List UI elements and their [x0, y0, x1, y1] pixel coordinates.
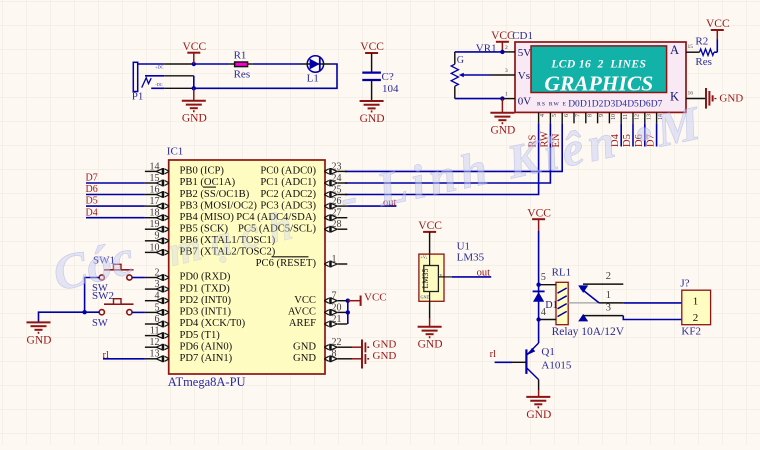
- wire EN : LCD pin6 to IC1 pin23: [345, 123, 562, 171]
- svg-text:Relay 10A/12V: Relay 10A/12V: [552, 326, 625, 338]
- svg-text:GRAPHICS: GRAPHICS: [544, 72, 653, 96]
- wire/net D7 from LCD pin 14: [656, 123, 658, 146]
- svg-text:RL1: RL1: [552, 267, 572, 279]
- IC1 pin 17: [145, 196, 169, 210]
- svg-text:VCC: VCC: [360, 41, 384, 53]
- node: relay pin5 junction: [536, 283, 540, 287]
- power ground GND (Q1): [526, 396, 550, 398]
- svg-text:GND: GND: [293, 342, 316, 353]
- svg-text:12: 12: [150, 337, 160, 348]
- power VCC (R2): [711, 29, 724, 31]
- svg-text:15: 15: [150, 173, 160, 184]
- wire/net D4 from LCD pin 11: [620, 123, 622, 146]
- svg-text:15: 15: [688, 44, 694, 50]
- svg-text:D4: D4: [86, 207, 98, 218]
- svg-text:rl: rl: [490, 349, 496, 360]
- svg-text:13: 13: [150, 349, 160, 360]
- sensor U1 LM35: [419, 241, 485, 302]
- svg-text:PC0 (ADC0): PC0 (ADC0): [260, 166, 316, 177]
- svg-text:PB3 (MOSI/OC2): PB3 (MOSI/OC2): [180, 200, 258, 211]
- svg-text:2: 2: [505, 45, 508, 51]
- power VCC (relay): [532, 218, 545, 220]
- svg-text:VCC: VCC: [294, 295, 316, 306]
- IC1 pin 24: [324, 173, 347, 187]
- connector J? KF2: [680, 278, 710, 338]
- wire VCC/AVCC/AREF tie: [347, 301, 349, 324]
- svg-text:G: G: [457, 55, 464, 66]
- wire/net D7 to pin 15: [86, 182, 145, 184]
- svg-text:16: 16: [150, 184, 160, 195]
- svg-text:GND: GND: [418, 339, 443, 351]
- power VCC (P1): [187, 52, 200, 54]
- svg-text:GND: GND: [27, 334, 52, 346]
- wire/net D6 to pin 16: [86, 194, 145, 196]
- svg-text:7: 7: [576, 114, 582, 117]
- svg-text:104: 104: [382, 83, 399, 95]
- node: switches junction: [82, 310, 86, 314]
- svg-text:rl: rl: [103, 350, 109, 361]
- wire/net D5 from LCD pin 12: [632, 123, 634, 146]
- svg-text:GND: GND: [293, 353, 316, 364]
- node: relay pin4 junction: [536, 317, 540, 321]
- IC1 pin 13: [145, 349, 169, 362]
- IC1 pin 18: [145, 208, 169, 222]
- IC1 pin 15: [145, 173, 169, 187]
- node: pin7 junction: [346, 299, 350, 303]
- svg-text:6: 6: [155, 314, 160, 325]
- svg-text:5V: 5V: [518, 47, 532, 59]
- svg-text:Res: Res: [234, 69, 251, 81]
- svg-text:A: A: [670, 43, 679, 57]
- svg-text:PC2 (ADC2): PC2 (ADC2): [260, 189, 316, 200]
- svg-text:2: 2: [693, 312, 699, 324]
- svg-text:PD4 (XCK/T0): PD4 (XCK/T0): [180, 318, 246, 329]
- svg-text:16: 16: [688, 91, 694, 97]
- wire Q1 collector to GND: [538, 380, 540, 390]
- svg-text:IC1: IC1: [167, 146, 184, 158]
- svg-text:D1: D1: [580, 100, 592, 110]
- node: GND junction dot (top-left): [192, 86, 196, 90]
- IC1 pin 10: [145, 242, 169, 256]
- IC1 pin 9: [145, 231, 169, 245]
- svg-text:8: 8: [332, 349, 337, 360]
- svg-text:LM35: LM35: [421, 269, 430, 289]
- svg-text:1: 1: [505, 92, 508, 98]
- svg-text:D1: D1: [545, 300, 557, 311]
- relay contact pin 2: [578, 271, 623, 293]
- IC1 pin 25: [324, 184, 347, 198]
- svg-text:0V: 0V: [518, 96, 532, 108]
- wire R1 to LED L1: [253, 63, 301, 65]
- node: pin20 junction: [346, 310, 350, 314]
- svg-text:PD6 (AIN0): PD6 (AIN0): [180, 342, 233, 353]
- svg-text:D4: D4: [615, 100, 627, 110]
- svg-text:PC1 (ADC1): PC1 (ADC1): [260, 177, 316, 188]
- node: LCD 0V junction: [500, 96, 504, 100]
- svg-text:ATmega8A-PU: ATmega8A-PU: [168, 375, 246, 389]
- IC1 pin 12: [145, 337, 169, 350]
- wire SW1 left contact down: [85, 278, 100, 313]
- power ground GND (LM35): [429, 301, 431, 318]
- svg-text:Q1: Q1: [541, 346, 554, 358]
- svg-text:3: 3: [155, 279, 160, 290]
- svg-text:GND: GND: [360, 113, 385, 125]
- svg-text:19: 19: [150, 219, 160, 230]
- LED L1: [301, 56, 331, 85]
- svg-text:GND: GND: [526, 409, 551, 421]
- wire/net rl to IC1 pin13: [103, 358, 145, 360]
- svg-text:6: 6: [564, 114, 570, 117]
- svg-text:18: 18: [150, 208, 160, 219]
- relay contact pin 3: [578, 303, 623, 322]
- svg-text:GND: GND: [182, 113, 207, 125]
- svg-text:D6: D6: [86, 184, 98, 195]
- svg-text:5: 5: [155, 302, 160, 313]
- svg-text:2: 2: [606, 271, 611, 282]
- svg-text:GND: GND: [373, 350, 397, 362]
- pushbutton SW2: [92, 290, 134, 329]
- IC1 pin 6: [145, 314, 169, 328]
- wire SW2 left contact to GND: [39, 312, 100, 322]
- svg-text:7: 7: [332, 291, 337, 302]
- svg-text:AVCC: AVCC: [288, 307, 316, 318]
- svg-text:D2: D2: [592, 100, 604, 110]
- power ground GND (IC1 pin22/pin8), sideways: [352, 339, 396, 369]
- wire P1 bottom pin to GND junction: [164, 87, 194, 89]
- wire LED return loop to P1: [194, 64, 337, 88]
- svg-text:A1015: A1015: [541, 359, 571, 371]
- power VCC (LM35): [423, 231, 436, 233]
- wire RS : LCD pin4 to IC1 pin25: [345, 123, 539, 194]
- svg-text:VCC: VCC: [418, 220, 442, 232]
- LCD bottom pins 4..14: [539, 100, 665, 124]
- svg-text:D0: D0: [568, 100, 580, 110]
- wire P1 middle pin to bottom net: [164, 75, 194, 77]
- svg-text:KF2: KF2: [681, 326, 701, 338]
- svg-text:8: 8: [587, 114, 593, 117]
- svg-text:28: 28: [332, 219, 342, 230]
- svg-text:22: 22: [332, 337, 342, 348]
- svg-text:PD1 (TXD): PD1 (TXD): [180, 283, 231, 294]
- svg-text:VCC: VCC: [706, 18, 730, 30]
- LCD pin 2 (5V): [502, 51, 515, 53]
- svg-text:PC6 (RESET): PC6 (RESET): [256, 258, 317, 269]
- wire RW : LCD pin5 to IC1 pin24: [345, 123, 551, 183]
- diode D1 (flyback): [533, 291, 558, 311]
- relay pin 5: [539, 284, 556, 286]
- svg-text:RS RW E: RS RW E: [537, 102, 567, 108]
- power ground GND (LCD 0V): [501, 99, 503, 113]
- svg-text:20: 20: [332, 302, 342, 313]
- svg-text:14: 14: [150, 161, 160, 172]
- potentiometer VR1: [451, 42, 502, 98]
- svg-text:Res: Res: [695, 56, 712, 68]
- svg-text:GND: GND: [719, 93, 743, 105]
- svg-text:-DC: -DC: [155, 82, 162, 87]
- IC1 pin 26: [324, 196, 347, 210]
- svg-text:VCC: VCC: [527, 207, 551, 219]
- power VCC (IC1 pin7): [348, 292, 387, 306]
- power ground GND (LCD K), sideways: [706, 88, 743, 109]
- resistor R1: [230, 49, 253, 80]
- svg-text:2: 2: [155, 267, 160, 278]
- svg-text:1: 1: [693, 295, 699, 307]
- svg-text:P1: P1: [132, 91, 144, 103]
- svg-text:11: 11: [150, 326, 160, 337]
- svg-text:PD5 (T1): PD5 (T1): [180, 330, 221, 341]
- wire/net D6 from LCD pin 13: [644, 123, 646, 146]
- LCD module CD1 box: [512, 30, 686, 113]
- svg-text:5: 5: [541, 272, 546, 283]
- power VCC (capacitor C?): [365, 52, 378, 54]
- svg-text:D7: D7: [86, 173, 98, 184]
- power ground GND (C?): [360, 100, 384, 102]
- IC1 pin 21: [324, 314, 347, 328]
- pushbutton SW1: [92, 255, 134, 295]
- svg-text:L1: L1: [307, 73, 319, 85]
- svg-text:PB2 (SS/OC1B): PB2 (SS/OC1B): [180, 189, 250, 200]
- node: VCC junction dot (top-left): [192, 62, 196, 66]
- svg-text:17: 17: [150, 196, 160, 207]
- IC1 pin 23: [324, 161, 347, 175]
- LCD pin 3 (Vs): [490, 74, 515, 76]
- svg-text:+DC: +DC: [155, 64, 163, 69]
- svg-text:4: 4: [155, 291, 160, 302]
- IC1 pin 19: [145, 219, 169, 233]
- svg-text:R1: R1: [234, 49, 247, 61]
- wire rail through D1: [538, 285, 540, 320]
- svg-text:5: 5: [552, 114, 558, 117]
- IC1 pin 16: [145, 184, 169, 198]
- power ground GND (P1): [193, 88, 195, 100]
- svg-text:10: 10: [150, 242, 160, 253]
- IC1 pin 22: [324, 337, 352, 350]
- wire rail to Q1 emitter: [538, 320, 540, 344]
- svg-text:3: 3: [505, 68, 508, 74]
- IC1 pin 27: [324, 208, 347, 222]
- resistor R2: [695, 36, 714, 69]
- svg-text:AREF: AREF: [289, 318, 316, 329]
- watermark: [47, 96, 709, 302]
- IC1 pin 5: [145, 302, 169, 316]
- svg-text:SW: SW: [92, 318, 108, 329]
- svg-text:23: 23: [332, 161, 342, 172]
- node: LCD 5V junction: [500, 50, 504, 54]
- wire/net D5 to pin 17: [86, 205, 145, 207]
- wire VCC rail down to relay: [538, 231, 540, 285]
- svg-text:PD3 (INT1): PD3 (INT1): [180, 307, 232, 318]
- LCD pin 16 (K) wire: [686, 98, 706, 100]
- svg-text:4: 4: [540, 114, 546, 117]
- connector P1 power jack: [132, 62, 164, 102]
- LCD pin 1 (0V): [502, 98, 515, 100]
- svg-text:1: 1: [606, 290, 611, 301]
- wire P1 top pin to VCC junction: [164, 63, 194, 65]
- svg-text:3: 3: [606, 303, 611, 314]
- power VCC (LCD 5V): [496, 41, 509, 43]
- IC1 pin 11: [145, 326, 169, 340]
- wire SW2 right contact to IC1 pin5: [132, 311, 145, 313]
- svg-text:+Vₓ: +Vₓ: [421, 255, 428, 260]
- IC1 pin 2: [145, 267, 169, 281]
- svg-text:PD7 (AIN1): PD7 (AIN1): [180, 353, 233, 364]
- IC1 pin 7: [324, 291, 347, 304]
- wire pin26 to net out: [347, 205, 396, 207]
- svg-text:R2: R2: [695, 36, 708, 48]
- wire R2 to VCC: [714, 51, 717, 53]
- svg-text:VR1: VR1: [476, 42, 497, 54]
- svg-text:GND: GND: [373, 339, 397, 351]
- LCD pin 15 (A) wire: [686, 51, 700, 53]
- IC1 pin 28: [324, 219, 347, 233]
- relay pin 4: [539, 319, 556, 321]
- svg-text:D5: D5: [86, 196, 98, 207]
- svg-text:PB0 (ICP): PB0 (ICP): [180, 166, 225, 177]
- svg-text:J?: J?: [680, 278, 689, 290]
- svg-text:VCC: VCC: [182, 41, 206, 53]
- IC1 pin 3: [145, 279, 169, 293]
- svg-text:CD1: CD1: [512, 30, 533, 42]
- relay RL1 coil: [552, 267, 572, 325]
- svg-text:D3: D3: [604, 100, 616, 110]
- wire VCC junction to R1: [194, 63, 230, 65]
- IC1 pin 1: [324, 254, 347, 268]
- IC1 pin 4: [145, 291, 169, 304]
- wire/net D4 to pin 18: [86, 217, 145, 219]
- IC1 pin 8: [324, 349, 352, 362]
- svg-text:PD2 (INT0): PD2 (INT0): [180, 295, 232, 306]
- svg-text:VCC: VCC: [364, 292, 387, 304]
- wire LM35 Vout to net out: [438, 276, 452, 278]
- IC1 pin 20: [324, 302, 347, 316]
- svg-text:PD0 (RXD): PD0 (RXD): [180, 272, 231, 283]
- power ground GND (switches): [27, 321, 51, 323]
- svg-text:GND: GND: [421, 294, 430, 299]
- wire relay pin3 to J? pin2: [623, 316, 682, 320]
- IC1 pin name texts: [180, 166, 317, 365]
- svg-text:27: 27: [332, 208, 342, 219]
- relay armature / pin 1: [568, 288, 623, 303]
- svg-text:9: 9: [155, 231, 160, 242]
- svg-text:21: 21: [332, 314, 342, 325]
- svg-text:LM35: LM35: [457, 252, 485, 264]
- wire relay pin1 to J? pin1: [623, 302, 682, 304]
- svg-text:Vs: Vs: [518, 70, 530, 82]
- wire SW1 right contact to IC1 pin2: [132, 277, 145, 279]
- IC1 pin 14: [145, 161, 169, 175]
- transistor Q1 A1015 (PNP): [526, 343, 571, 380]
- microcontroller IC1 ATmega8A-PU body: [167, 146, 325, 390]
- svg-text:C?: C?: [382, 71, 394, 83]
- wire/net rl to Q1 base: [495, 361, 512, 363]
- capacitor C? 104: [362, 71, 399, 101]
- svg-text:1: 1: [332, 254, 337, 265]
- svg-text:LCD 16 2 LINES: LCD 16 2 LINES: [550, 59, 646, 71]
- svg-text:out: out: [477, 267, 491, 278]
